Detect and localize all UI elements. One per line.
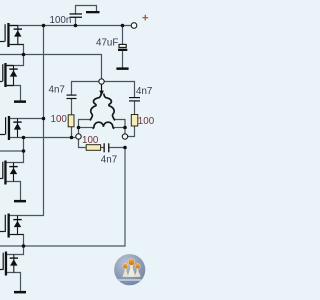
svg-text:100n: 100n: [50, 15, 72, 26]
wire T6 source to ground: [7, 273, 20, 292]
wire omega right link: [114, 127, 126, 129]
transistor Q3: [0, 116, 22, 140]
ground (47uF): [116, 67, 128, 70]
node terminal +: [131, 23, 137, 29]
transistor Q1: [0, 23, 24, 47]
svg-text:100: 100: [82, 135, 99, 146]
wire bottom row y242 and right riser x124.5: [0, 148, 125, 247]
wire left branch from center node to 4n7: [72, 82, 99, 95]
svg-text:100: 100: [51, 114, 68, 125]
junction left stub: [22, 149, 26, 153]
svg-text:4n7: 4n7: [101, 155, 117, 166]
capacitor C5 4n7 bottom (vertical plates): [104, 143, 110, 152]
transistor Q4: [0, 161, 18, 185]
svg-text:4n7: 4n7: [49, 85, 65, 96]
transistor Q6: [0, 252, 18, 276]
wire rail branch x43 down to T5 drain: [10, 26, 44, 216]
node left: [76, 134, 81, 139]
junction R1 bottom: [70, 136, 74, 140]
node right: [122, 134, 127, 139]
wire y150.7 stub: [0, 150, 24, 152]
wire left 4n7 to resistor to left node: [71, 99, 73, 137]
transducer omega winding: [93, 122, 113, 128]
resistor R1 100 left: [68, 115, 74, 127]
transistor Q2: [0, 63, 18, 87]
junction Q1 source: [22, 53, 26, 57]
logo badge: [114, 254, 145, 285]
node center: [99, 79, 104, 84]
wire left node down to series RC: [79, 139, 126, 148]
plus label: [143, 15, 149, 21]
capacitor C3 4n7 left: [67, 95, 77, 100]
ground (Q6): [14, 291, 26, 294]
junction rail-branch: [42, 24, 46, 28]
wire crown right corner link: [115, 120, 125, 135]
wire T3 source drop to T4 drain: [7, 138, 24, 163]
wire crown left corner link: [79, 120, 91, 135]
resistor R3 100 middle: [86, 145, 100, 151]
transistor Q5: [0, 214, 24, 238]
junction series RC right: [123, 146, 127, 150]
wire T2 source to ground: [7, 86, 21, 101]
junction 47uF tap: [121, 24, 125, 28]
wire T6 drain from bottom row: [7, 246, 23, 255]
svg-text:47uF: 47uF: [96, 37, 118, 48]
junction transducer left: [77, 126, 81, 130]
junction transducer right: [123, 126, 127, 130]
wire right branch from center node to right 4n7: [104, 82, 134, 98]
resistor R2 100 right: [131, 115, 138, 127]
transducer crown: [90, 94, 114, 120]
ground (Q4): [14, 200, 26, 203]
svg-text:100: 100: [138, 116, 155, 127]
capacitor C4 4n7 right: [129, 97, 140, 102]
wire top rail: [10, 25, 132, 27]
junction 100n tap: [74, 24, 78, 28]
junction Q5 source: [22, 244, 26, 248]
junction Q3 drain: [42, 117, 46, 121]
capacitor 100n: [70, 13, 83, 18]
wire T3 source row y137 to left node circle: [10, 137, 76, 139]
svg-text:4n7: 4n7: [136, 86, 152, 97]
wire T5 source drop: [23, 235, 25, 247]
ground (100n): [86, 11, 100, 13]
wire right 4n7 to resistor to right node: [128, 102, 135, 137]
transducer arrow: [101, 84, 103, 91]
wire T4 source to ground: [7, 182, 21, 201]
wire T3 drain to rail branch: [10, 118, 43, 120]
wire T1-source junction row y54.5 to center node: [0, 55, 102, 80]
wire 47uF cap branch: [122, 26, 124, 68]
wire T1 source drop to T2 drain: [7, 45, 24, 66]
capacitor C2 47uF electrolytic: [118, 44, 127, 51]
ground (Q2): [14, 100, 26, 103]
wire omega left link: [79, 127, 93, 129]
wire 100n cap branch: [76, 6, 97, 26]
junction Q3 source: [22, 136, 26, 140]
